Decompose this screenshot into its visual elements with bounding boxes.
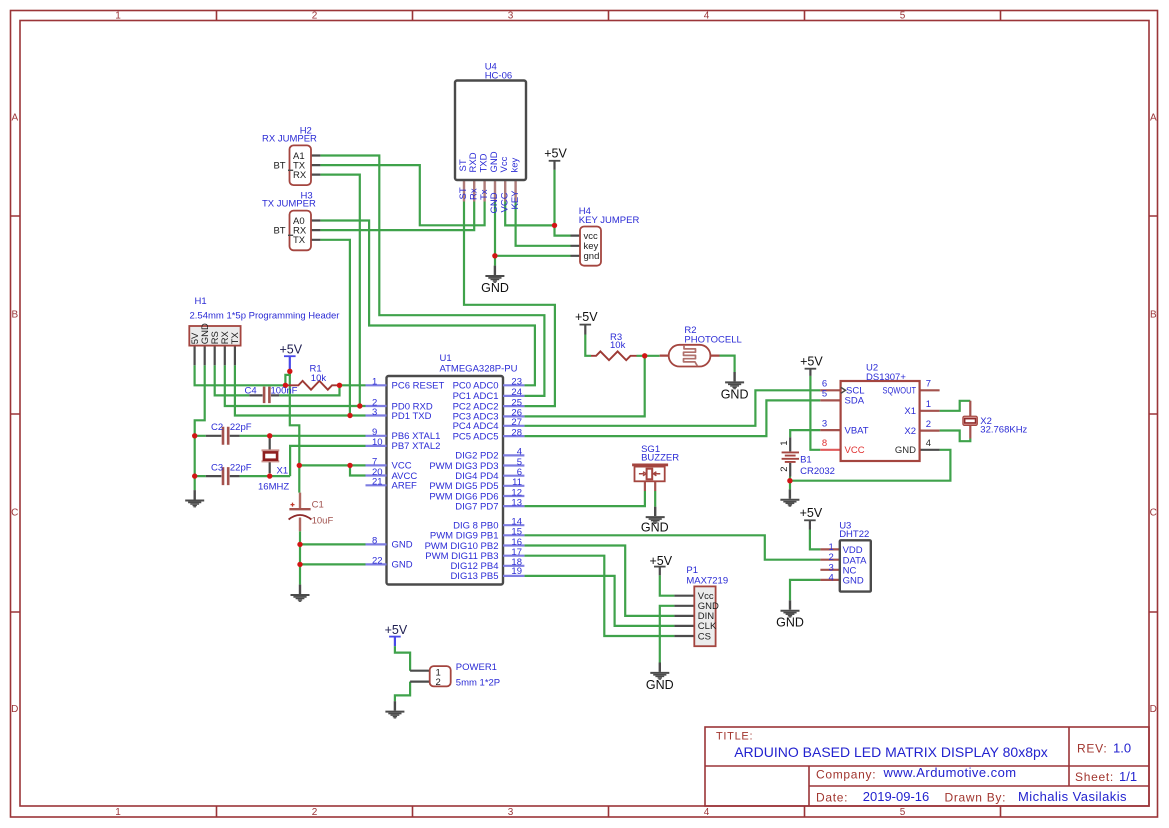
svg-text:+5V: +5V	[544, 147, 567, 161]
svg-text:10k: 10k	[610, 340, 626, 351]
svg-text:C: C	[1150, 508, 1157, 519]
svg-text:Michalis Vasilakis: Michalis Vasilakis	[1018, 789, 1127, 804]
svg-text:DS1307+: DS1307+	[866, 372, 906, 383]
svg-text:22pF: 22pF	[230, 463, 252, 474]
svg-text:GND: GND	[895, 445, 916, 456]
svg-text:8: 8	[822, 438, 827, 449]
svg-text:B1: B1	[800, 455, 812, 466]
svg-text:4: 4	[704, 11, 710, 22]
svg-text:TX: TX	[293, 235, 306, 246]
svg-text:13: 13	[511, 497, 522, 508]
svg-text:GND: GND	[776, 616, 804, 630]
svg-text:2: 2	[926, 419, 931, 430]
svg-text:100nF: 100nF	[271, 386, 298, 397]
svg-text:CS: CS	[698, 631, 711, 642]
svg-text:3: 3	[822, 418, 827, 429]
svg-text:10: 10	[372, 437, 383, 448]
svg-text:SQWOUT: SQWOUT	[883, 386, 917, 397]
svg-text:KEY: KEY	[510, 190, 521, 210]
svg-text:2.54mm 1*5p Programming Header: 2.54mm 1*5p Programming Header	[190, 311, 340, 322]
svg-text:Date:: Date:	[816, 791, 848, 805]
svg-text:PD1 TXD: PD1 TXD	[392, 411, 432, 422]
svg-text:19: 19	[511, 566, 522, 577]
svg-text:+5V: +5V	[800, 354, 823, 368]
svg-text:ARDUINO BASED LED MATRIX DISPL: ARDUINO BASED LED MATRIX DISPLAY 80x8px	[734, 744, 1048, 760]
svg-text:RX: RX	[293, 170, 307, 181]
svg-text:X1: X1	[277, 465, 289, 476]
svg-text:GND: GND	[392, 540, 413, 551]
svg-text:DHT22: DHT22	[839, 529, 869, 540]
svg-text:PHOTOCELL: PHOTOCELL	[684, 334, 741, 345]
svg-text:TX: TX	[230, 331, 241, 344]
svg-text:3: 3	[372, 407, 377, 418]
svg-text:RX JUMPER: RX JUMPER	[262, 134, 317, 145]
svg-text:REV:: REV:	[1077, 742, 1107, 756]
svg-text:SDA: SDA	[845, 396, 865, 407]
svg-text:Company:: Company:	[816, 768, 876, 782]
svg-text:4: 4	[704, 807, 710, 818]
svg-text:7: 7	[926, 379, 931, 390]
svg-text:21: 21	[372, 477, 383, 488]
svg-text:32.768KHz: 32.768KHz	[980, 425, 1027, 436]
svg-text:5: 5	[900, 11, 906, 22]
svg-text:D: D	[1150, 704, 1157, 715]
svg-text:www.Ardumotive.com: www.Ardumotive.com	[882, 765, 1016, 780]
svg-text:1: 1	[115, 807, 121, 818]
svg-text:Sheet:: Sheet:	[1075, 770, 1114, 784]
svg-text:GND: GND	[646, 678, 674, 692]
svg-text:23: 23	[511, 377, 522, 388]
svg-text:AREF: AREF	[392, 481, 418, 492]
svg-text:C: C	[11, 508, 18, 519]
svg-text:2019-09-16: 2019-09-16	[863, 789, 930, 804]
svg-text:RXD: RXD	[468, 152, 479, 172]
svg-text:D: D	[11, 704, 18, 715]
svg-text:+5V: +5V	[280, 342, 303, 356]
svg-text:4: 4	[829, 572, 834, 583]
svg-text:3: 3	[508, 807, 514, 818]
svg-text:3: 3	[508, 11, 514, 22]
svg-text:TITLE:: TITLE:	[716, 731, 753, 743]
svg-text:C4: C4	[245, 386, 257, 397]
svg-text:+5V: +5V	[385, 623, 408, 637]
svg-text:GND: GND	[392, 560, 413, 571]
svg-text:Vcc: Vcc	[499, 156, 510, 172]
svg-text:TX JUMPER: TX JUMPER	[262, 199, 316, 210]
svg-text:DIG13 PB5: DIG13 PB5	[450, 571, 498, 582]
svg-text:PB7 XTAL2: PB7 XTAL2	[392, 441, 441, 452]
svg-text:+5V: +5V	[575, 310, 598, 324]
svg-text:Rx: Rx	[468, 188, 479, 200]
svg-text:1: 1	[372, 377, 377, 388]
svg-text:PC0 ADC0: PC0 ADC0	[453, 381, 499, 392]
svg-text:16MHZ: 16MHZ	[258, 481, 289, 492]
svg-text:TXD: TXD	[478, 153, 489, 172]
svg-text:+5V: +5V	[650, 554, 673, 568]
svg-text:5: 5	[822, 389, 827, 400]
svg-text:1: 1	[926, 399, 931, 410]
svg-text:C1: C1	[312, 499, 324, 510]
svg-text:CR2032: CR2032	[800, 466, 835, 477]
svg-text:1: 1	[115, 11, 121, 22]
svg-text:C3: C3	[211, 463, 223, 474]
svg-text:BT: BT	[273, 225, 285, 236]
svg-text:gnd: gnd	[584, 251, 600, 262]
svg-text:A: A	[1150, 113, 1157, 124]
svg-text:2: 2	[312, 11, 318, 22]
svg-text:B: B	[1150, 310, 1157, 321]
svg-text:1/1: 1/1	[1119, 769, 1137, 784]
svg-text:KEY JUMPER: KEY JUMPER	[579, 215, 640, 226]
svg-text:DIG7 PD7: DIG7 PD7	[455, 501, 498, 512]
svg-text:H1: H1	[195, 296, 207, 307]
svg-text:10uF: 10uF	[312, 515, 334, 526]
svg-text:MAX7219: MAX7219	[686, 575, 728, 586]
svg-text:GND: GND	[481, 281, 509, 295]
svg-text:PC5 ADC5: PC5 ADC5	[453, 431, 499, 442]
svg-text:BT: BT	[273, 160, 285, 171]
svg-text:GND: GND	[843, 576, 864, 587]
svg-text:A: A	[11, 113, 18, 124]
svg-text:10k: 10k	[311, 373, 327, 384]
svg-text:1: 1	[779, 441, 790, 446]
svg-text:1.0: 1.0	[1113, 741, 1131, 756]
svg-text:BUZZER: BUZZER	[641, 452, 679, 463]
svg-text:Tx: Tx	[479, 189, 490, 200]
svg-text:28: 28	[511, 427, 522, 438]
svg-text:4: 4	[926, 438, 931, 449]
svg-text:VCC: VCC	[845, 445, 865, 456]
svg-text:2: 2	[436, 677, 441, 688]
svg-text:POWER1: POWER1	[456, 662, 497, 673]
svg-text:C2: C2	[211, 422, 223, 433]
svg-text:2: 2	[312, 807, 318, 818]
svg-text:X2: X2	[904, 426, 916, 437]
svg-text:2: 2	[779, 467, 790, 472]
svg-text:GND: GND	[641, 521, 669, 535]
svg-text:VCC: VCC	[499, 192, 510, 212]
svg-text:X1: X1	[904, 406, 916, 417]
svg-text:HC-06: HC-06	[485, 70, 512, 81]
svg-text:ATMEGA328P-PU: ATMEGA328P-PU	[440, 363, 518, 374]
svg-text:GND: GND	[721, 387, 749, 401]
svg-text:PC6 RESET: PC6 RESET	[392, 381, 445, 392]
svg-text:VBAT: VBAT	[845, 425, 869, 436]
svg-text:22: 22	[372, 556, 383, 567]
svg-text:8: 8	[372, 536, 377, 547]
svg-text:5mm 1*2P: 5mm 1*2P	[456, 677, 500, 688]
svg-text:+5V: +5V	[800, 506, 823, 520]
svg-text:B: B	[11, 310, 18, 321]
svg-text:Drawn By:: Drawn By:	[945, 791, 1007, 805]
svg-text:key: key	[509, 157, 520, 172]
svg-text:5: 5	[900, 807, 906, 818]
svg-text:22pF: 22pF	[230, 422, 252, 433]
